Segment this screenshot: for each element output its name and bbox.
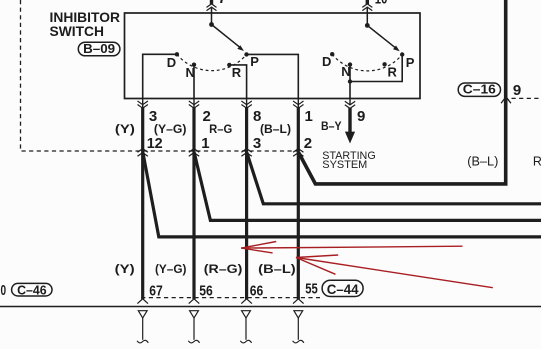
pin 8 wire below box xyxy=(246,99,248,108)
switch 2 lever xyxy=(367,25,396,48)
svg-text:C–46: C–46 xyxy=(17,283,47,298)
switch 2 contact arc xyxy=(332,54,402,71)
connector chevron C-16 pin 9 xyxy=(501,97,511,104)
switch 1 contact arc xyxy=(177,54,247,70)
svg-text:P: P xyxy=(406,55,415,70)
dashed boundary right xyxy=(512,97,541,99)
chevron bottom pin 55 xyxy=(293,299,304,304)
red annotation arrow 2 xyxy=(296,255,493,288)
switch 2 pivot dot xyxy=(365,23,370,28)
chevron bottom pin 66 xyxy=(241,299,252,304)
switch 2 contact P xyxy=(400,52,404,56)
junction dot xyxy=(348,79,352,83)
terminal 56 xyxy=(190,311,199,318)
pin 1 wire below box xyxy=(297,99,299,108)
wire pin 2 branch to C-16 xyxy=(299,0,506,184)
wire stub top pin 7 xyxy=(210,0,213,4)
switch 1 lever xyxy=(212,25,241,48)
svg-text:(B–L): (B–L) xyxy=(467,154,498,168)
svg-text:7: 7 xyxy=(218,0,226,7)
red annotation arrow 1 xyxy=(241,242,462,253)
bottom wire colors xyxy=(115,262,296,276)
connector label C-16 xyxy=(458,83,500,96)
switch 1 contact P xyxy=(244,52,248,56)
wire P to N junction xyxy=(350,55,402,82)
svg-text:0: 0 xyxy=(1,282,7,299)
wire pin 1 branch right xyxy=(194,153,541,221)
chevron bottom pin 56 xyxy=(189,299,200,304)
switch 2 contact D xyxy=(330,52,334,56)
svg-text:(B–L): (B–L) xyxy=(260,122,291,136)
wire R to pin 8 xyxy=(229,65,246,99)
wire pin 3 branch right xyxy=(247,153,541,204)
switch 1 contact R xyxy=(227,63,231,67)
switch 2 contact N xyxy=(348,62,352,66)
svg-text:R: R xyxy=(388,64,398,79)
svg-text:9: 9 xyxy=(513,82,521,99)
svg-text:(Y–G): (Y–G) xyxy=(154,122,187,136)
separator line xyxy=(0,306,541,308)
label INHIBITOR SWITCH xyxy=(50,9,121,39)
svg-text:R–G: R–G xyxy=(533,154,541,168)
terminal 66 xyxy=(242,311,251,318)
bottom connector dashed line xyxy=(141,297,320,299)
svg-text:D: D xyxy=(167,55,176,70)
svg-text:1: 1 xyxy=(201,135,209,152)
label STARTING SYSTEM xyxy=(322,150,375,171)
svg-text:SWITCH: SWITCH xyxy=(50,23,105,39)
svg-text:C–16: C–16 xyxy=(463,83,496,97)
svg-text:1: 1 xyxy=(305,108,313,125)
svg-text:10: 10 xyxy=(375,0,388,8)
connector label C-44 xyxy=(322,280,363,296)
connector chevrons top pin 7 xyxy=(207,4,217,11)
svg-text:12: 12 xyxy=(147,135,163,152)
bottom pin numbers xyxy=(149,281,317,300)
switch 1 contact D xyxy=(175,52,179,56)
svg-text:R: R xyxy=(232,65,242,80)
svg-text:N: N xyxy=(341,64,350,79)
svg-text:2: 2 xyxy=(304,135,312,152)
chevron bottom pin 67 xyxy=(137,299,148,304)
pin 2 wire below box xyxy=(193,99,195,108)
svg-text:9: 9 xyxy=(357,108,365,125)
switch 1 input wire xyxy=(211,8,213,25)
connector label C-46 xyxy=(12,283,52,296)
svg-text:D: D xyxy=(322,54,331,69)
wire D to pin 3 xyxy=(143,54,177,98)
terminal 67 xyxy=(138,311,147,318)
wire N to pin 2 xyxy=(193,65,195,99)
connector label B-09 xyxy=(78,42,120,56)
switch body box xyxy=(125,13,421,99)
svg-text:B–09: B–09 xyxy=(83,42,115,56)
svg-text:3: 3 xyxy=(253,135,261,152)
switch 1 contact N xyxy=(192,62,196,66)
connector chevrons top pin 10 xyxy=(362,4,372,11)
wire P to pin 1 xyxy=(247,54,299,98)
terminal 55 xyxy=(294,311,303,318)
switch 1 pivot dot xyxy=(209,22,214,27)
wire N to pin 9 xyxy=(349,65,351,99)
switch 2 input wire xyxy=(366,8,368,25)
svg-text:66: 66 xyxy=(250,282,263,299)
wire stub top pin 10 xyxy=(366,0,369,4)
svg-text:R–G: R–G xyxy=(209,122,232,136)
svg-text:(R–G): (R–G) xyxy=(204,262,243,276)
inhibitor switch dashed boundary xyxy=(21,0,299,151)
svg-text:(Y–G): (Y–G) xyxy=(155,262,187,276)
svg-text:(B–L): (B–L) xyxy=(258,262,296,276)
svg-text:P: P xyxy=(250,54,259,69)
svg-text:C–44: C–44 xyxy=(327,281,359,297)
wire pin 12 branch right xyxy=(143,153,541,237)
svg-text:67: 67 xyxy=(149,282,163,299)
svg-text:(Y): (Y) xyxy=(115,262,135,276)
svg-text:B–Y: B–Y xyxy=(321,119,342,133)
pin 9 wire B-Y to starting system xyxy=(349,99,351,105)
svg-text:56: 56 xyxy=(199,282,213,299)
svg-text:55: 55 xyxy=(305,281,318,298)
svg-text:(Y): (Y) xyxy=(115,122,135,136)
switch 2 contact R xyxy=(382,62,386,66)
pin 3 wire below box xyxy=(142,99,144,108)
svg-text:SYSTEM: SYSTEM xyxy=(322,159,367,171)
